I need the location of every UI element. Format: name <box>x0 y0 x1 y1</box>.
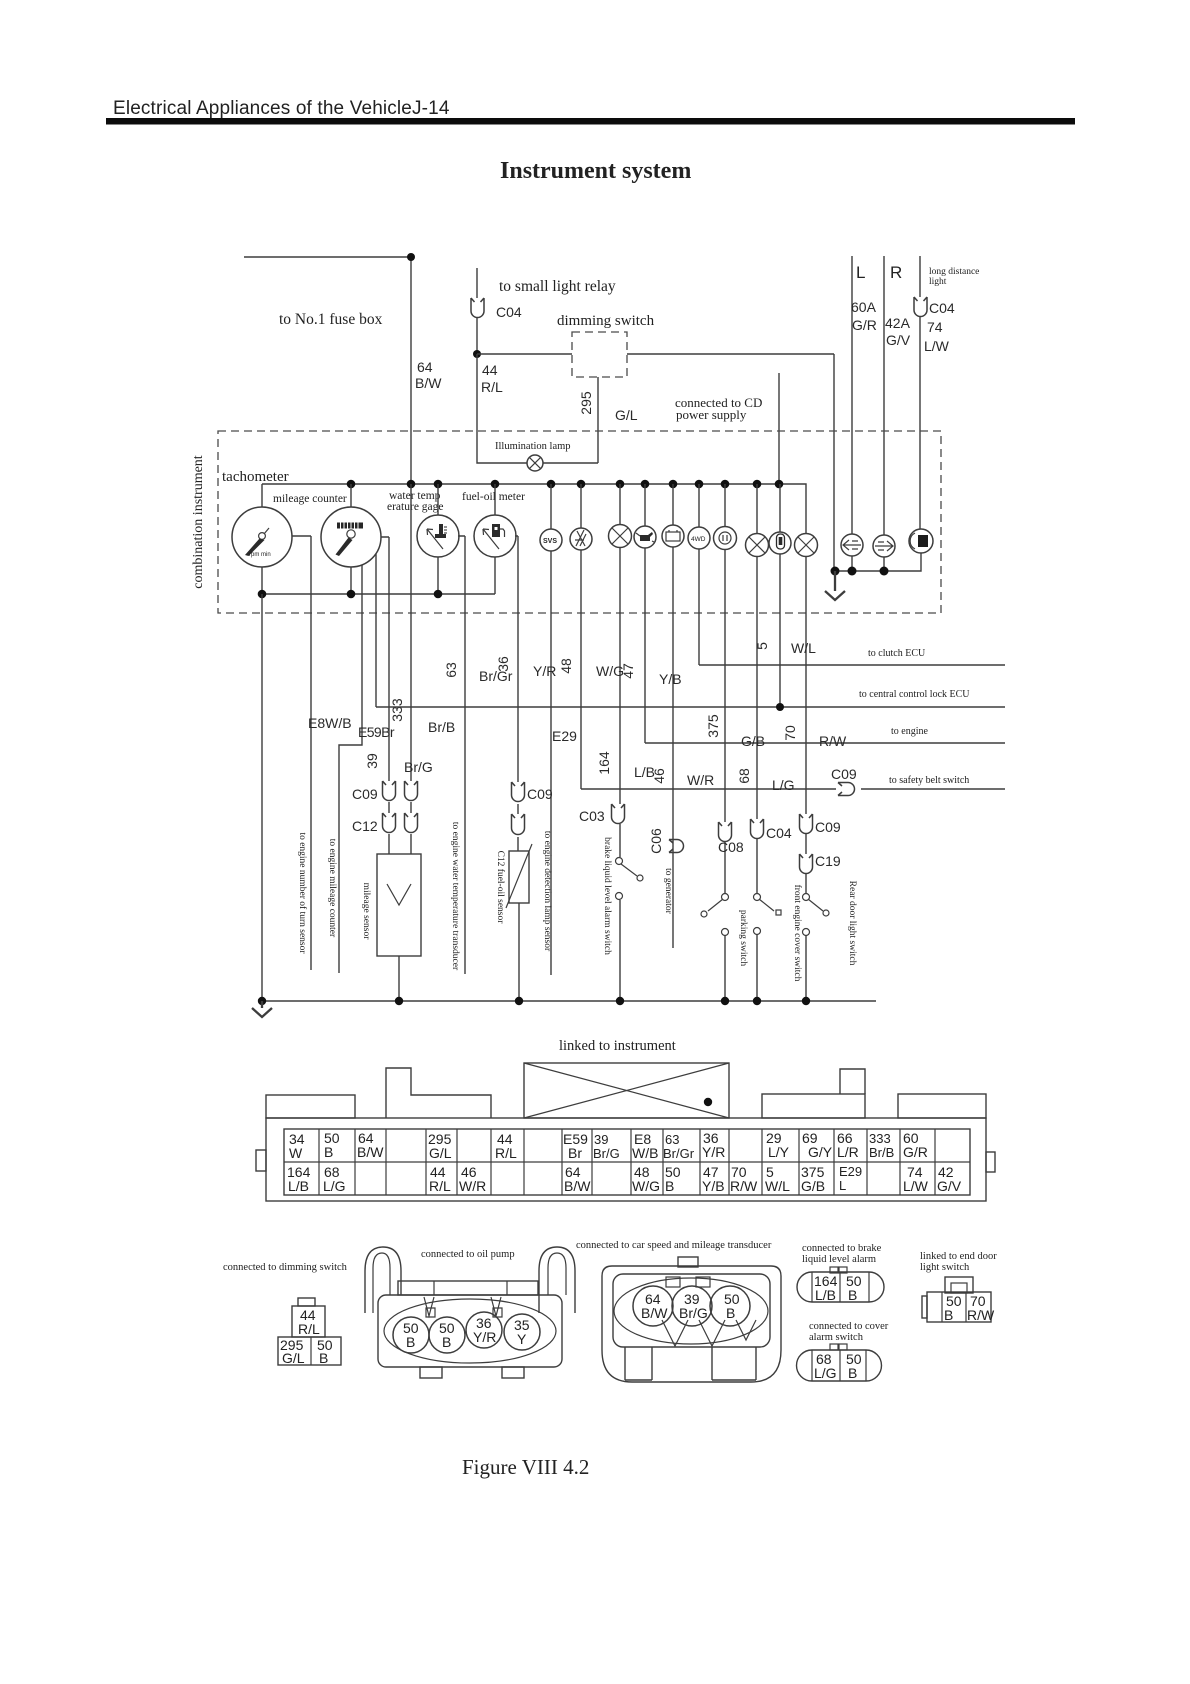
svg-text:C19: C19 <box>815 853 841 869</box>
svg-text:Br: Br <box>568 1145 582 1161</box>
svg-text:L: L <box>856 263 865 282</box>
svg-text:to clutch ECU: to clutch ECU <box>868 648 926 659</box>
connector C19 <box>800 854 813 874</box>
svg-text:brake liquid level alarm switc: brake liquid level alarm switch <box>602 837 612 955</box>
pin 34 W <box>289 1131 305 1161</box>
svg-text:42A: 42A <box>885 315 911 331</box>
svg-text:L/B: L/B <box>288 1178 309 1194</box>
wire E59 Br: to central control lock <box>375 554 377 707</box>
svg-text:B/W: B/W <box>641 1305 668 1321</box>
svg-text:mileage sensor: mileage sensor <box>361 883 371 941</box>
oil pump pin 36 Y/R <box>466 1312 502 1348</box>
svg-text:Illumination lamp: Illumination lamp <box>495 441 571 452</box>
svg-text:B: B <box>442 1334 451 1350</box>
svg-text:B: B <box>406 1334 415 1350</box>
connector C04 (front engine cover) <box>751 819 764 839</box>
svg-text:E8W/B: E8W/B <box>308 715 352 731</box>
svg-text:46: 46 <box>651 768 667 784</box>
svg-text:74: 74 <box>927 319 943 335</box>
connector C12 (mileage pin1) <box>383 813 396 833</box>
oil pump pin clips <box>424 1297 502 1317</box>
lamp ground link <box>831 567 889 576</box>
svg-text:L/W: L/W <box>903 1178 929 1194</box>
svg-text:L/G: L/G <box>814 1365 837 1381</box>
svg-text:mileage counter: mileage counter <box>273 493 347 505</box>
svg-text:G/B: G/B <box>801 1178 825 1194</box>
svg-text:C09: C09 <box>352 786 378 802</box>
C12 fuel-oil sensor (resistor) <box>506 844 532 908</box>
svg-text:C03: C03 <box>579 808 605 824</box>
svg-text:C09: C09 <box>527 786 553 802</box>
svg-text:long distance: long distance <box>929 267 979 277</box>
svg-text:G/V: G/V <box>937 1178 962 1194</box>
wire to No.1 fuse box (64 B/W feed) <box>244 253 415 484</box>
dimming switch (dashed box) <box>572 332 627 377</box>
wire L (60A G/R) <box>851 256 853 534</box>
tachometer gauge <box>232 484 292 594</box>
pin 63 Br/Gr <box>663 1132 695 1161</box>
wire 333 Br/B: mileage sensor pin 2 <box>410 484 412 854</box>
wire long distance light 74 L/W <box>919 256 921 529</box>
connector C08 (parking) <box>719 822 732 842</box>
svg-text:C04: C04 <box>496 304 522 320</box>
svg-text:Figure VIII 4.2: Figure VIII 4.2 <box>462 1455 589 1479</box>
pin E8 W/B <box>632 1131 658 1161</box>
svg-text:to engine detection lamp senso: to engine detection lamp sensor <box>542 831 552 952</box>
svg-text:G/B: G/B <box>741 733 765 749</box>
mileage sensor box <box>377 854 421 956</box>
connector keyway box with X <box>524 1063 729 1118</box>
svg-text:333: 333 <box>869 1131 891 1146</box>
svg-text:44: 44 <box>482 362 498 378</box>
svg-text:Y/B: Y/B <box>702 1178 725 1194</box>
svg-text:C12 fuel-oil sensor: C12 fuel-oil sensor <box>495 851 506 925</box>
pin 64 B/W (2) <box>564 1164 591 1194</box>
pin 50 B (dimming) <box>317 1337 333 1366</box>
transducer pin chevrons <box>662 1320 756 1346</box>
pin 70 R/W <box>730 1164 758 1194</box>
pin 375 G/B <box>801 1164 825 1194</box>
svg-text:70: 70 <box>782 725 798 741</box>
svg-text:G/Y: G/Y <box>808 1144 833 1160</box>
svg-text:Y/R: Y/R <box>533 663 556 679</box>
pin 295 G/L <box>428 1131 452 1161</box>
svg-text:164: 164 <box>596 751 612 775</box>
header rule <box>106 118 1075 125</box>
oil pump connector shell <box>365 1247 575 1378</box>
svg-text:R/W: R/W <box>967 1307 995 1323</box>
connector C09 (safety belt line) <box>838 783 855 796</box>
rear door light switch <box>803 894 830 1002</box>
svg-text:63: 63 <box>443 662 459 678</box>
svg-text:B: B <box>944 1307 953 1323</box>
svg-text:4WD: 4WD <box>691 536 706 543</box>
indicator lamp (X) right <box>795 534 818 895</box>
svg-text:power supply: power supply <box>676 407 747 422</box>
wire: gauge ground to chassis <box>261 594 263 1001</box>
indicator lamp oil pressure <box>634 484 656 743</box>
wire to clutch ECU <box>699 664 1005 666</box>
svg-text:light switch: light switch <box>920 1262 970 1273</box>
svg-text:connected to cover: connected to cover <box>809 1321 889 1332</box>
svg-text:Electrical Appliances of the V: Electrical Appliances of the VehicleJ-14 <box>113 98 450 119</box>
svg-text:C12: C12 <box>352 818 378 834</box>
node: seat belt lamp joins lock line <box>776 703 784 711</box>
pin 47 Y/B <box>702 1164 725 1194</box>
transducer pin 39 Br/G <box>672 1286 712 1326</box>
indicator lamp charge <box>570 484 592 789</box>
connector C09 (mileage pin2) <box>405 781 418 801</box>
svg-text:36: 36 <box>495 656 511 672</box>
svg-text:B: B <box>319 1350 328 1366</box>
connector C04 (long distance light) <box>914 297 927 317</box>
wire 39 Br/G: mileage sensor pin 1 <box>381 537 389 854</box>
svg-text:Instrument system: Instrument system <box>500 158 691 184</box>
pin 74 L/W <box>903 1164 929 1194</box>
transducer connector shell <box>602 1257 781 1382</box>
svg-text:Rear door light switch: Rear door light switch <box>847 881 857 966</box>
svg-text:39: 39 <box>594 1132 608 1147</box>
svg-text:G/L: G/L <box>615 407 638 423</box>
pin 295 G/L (dimming) <box>280 1337 305 1366</box>
svg-text:375: 375 <box>705 714 721 738</box>
svg-text:R: R <box>890 263 902 282</box>
svg-text:to No.1 fuse box: to No.1 fuse box <box>279 311 383 328</box>
pin 60 G/R <box>903 1130 928 1160</box>
svg-text:alarm switch: alarm switch <box>809 1332 864 1343</box>
pin 5 W/L <box>765 1164 790 1194</box>
svg-text:connected to oil pump: connected to oil pump <box>421 1249 515 1260</box>
oil pump pin 50 B <box>393 1317 429 1353</box>
combination instrument (dashed enclosure) <box>218 431 941 613</box>
ground arrow (instrument) <box>825 571 845 600</box>
svg-text:erature gage: erature gage <box>387 501 444 513</box>
svg-text:39: 39 <box>364 753 380 769</box>
svg-text:295: 295 <box>578 391 594 415</box>
pin 42 G/V <box>937 1164 962 1194</box>
svg-text:B: B <box>665 1178 674 1194</box>
svg-text:B/W: B/W <box>357 1144 384 1160</box>
transducer pin 50 B <box>710 1286 750 1326</box>
svg-text:L: L <box>839 1178 846 1193</box>
svg-text:B: B <box>848 1365 857 1381</box>
svg-text:linked to instrument: linked to instrument <box>559 1038 676 1054</box>
parking switch <box>701 894 729 1002</box>
pin 36 Y/R <box>702 1130 725 1160</box>
svg-text:R/L: R/L <box>298 1321 320 1337</box>
svg-text:W/L: W/L <box>765 1178 790 1194</box>
wire 44 R/L to dimming switch <box>477 353 572 355</box>
svg-text:dimming switch: dimming switch <box>557 313 655 329</box>
svg-text:L/R: L/R <box>837 1144 859 1160</box>
pin 50 B (2) <box>665 1164 681 1194</box>
pin 68 L/G <box>323 1164 346 1194</box>
svg-text:Y/R: Y/R <box>702 1144 725 1160</box>
oil pump pin 50 B (2) <box>429 1317 465 1353</box>
svg-text:R/L: R/L <box>429 1178 451 1194</box>
svg-text:fuel-oil meter: fuel-oil meter <box>462 491 525 503</box>
svg-text:B: B <box>848 1287 857 1303</box>
pin 46 W/R <box>459 1164 486 1194</box>
turn indicator L <box>841 534 863 571</box>
svg-text:R/L: R/L <box>481 379 503 395</box>
svg-text:333: 333 <box>389 698 405 722</box>
indicator lamp battery <box>662 484 684 948</box>
svg-text:C06: C06 <box>648 828 664 854</box>
high beam indicator <box>884 529 933 571</box>
pin 50 B (end door) <box>944 1293 962 1323</box>
indicator lamp (X) left <box>609 484 632 804</box>
svg-text:Y/R: Y/R <box>473 1329 496 1345</box>
svg-text:Br/G: Br/G <box>593 1146 620 1161</box>
svg-text:tachometer: tachometer <box>222 469 289 485</box>
wire: fuel sensor to ground <box>518 903 520 1001</box>
connector C06 (generator, rotated) <box>669 840 684 853</box>
svg-text:E29: E29 <box>839 1164 862 1179</box>
svg-text:parking switch: parking switch <box>738 910 748 966</box>
wire R (42A G/V) <box>883 256 885 535</box>
wire to safety belt switch <box>581 788 1005 790</box>
svg-text:C04: C04 <box>766 825 792 841</box>
connector C09 (rear door) <box>800 814 813 834</box>
pin 44 R/L (2) <box>429 1164 451 1194</box>
svg-text:E29: E29 <box>552 728 577 744</box>
svg-text:front engine cover switch: front engine cover switch <box>792 885 803 982</box>
pin 44 R/L (dimming) <box>298 1307 320 1337</box>
wire: to engine number of turn sensor <box>292 536 311 970</box>
svg-text:R/W: R/W <box>730 1178 758 1194</box>
mileage counter gauge <box>321 484 381 594</box>
svg-text:L/G: L/G <box>772 777 795 793</box>
pin 66 L/R <box>837 1130 859 1160</box>
svg-text:W/L: W/L <box>791 640 816 656</box>
svg-text:68: 68 <box>736 768 752 784</box>
svg-text:B/W: B/W <box>415 375 442 391</box>
wire 36 Y/R: fuel sensor <box>515 536 518 851</box>
brake liquid level alarm switch <box>616 824 644 1001</box>
svg-text:rpm min: rpm min <box>249 552 271 558</box>
svg-text:C09: C09 <box>815 819 841 835</box>
svg-text:Br/B: Br/B <box>428 719 455 735</box>
illumination lamp <box>527 455 543 471</box>
instrument connector housing <box>256 1068 995 1201</box>
connector C09 (mileage pin1) <box>383 781 396 801</box>
svg-text:64: 64 <box>417 359 433 375</box>
end door light switch connector <box>922 1277 991 1322</box>
svg-text:B: B <box>726 1305 735 1321</box>
pin 29 L/Y <box>766 1130 790 1160</box>
svg-text:W/R: W/R <box>687 772 714 788</box>
water temperature gauge <box>417 484 459 593</box>
chassis ground bus <box>258 997 876 1005</box>
oil pump pin 35 Y <box>504 1314 540 1350</box>
node: junction 44 R/L <box>473 350 481 358</box>
svg-text:liquid level alarm: liquid level alarm <box>802 1254 876 1265</box>
svg-text:R/L: R/L <box>495 1145 517 1161</box>
wire: mileage sensor to ground <box>398 956 400 1001</box>
svg-text:Br/G: Br/G <box>404 759 433 775</box>
pin grid <box>284 1129 970 1195</box>
wire to engine <box>645 742 1005 744</box>
pin E59 Br <box>563 1131 588 1161</box>
svg-text:to generator: to generator <box>663 868 673 914</box>
svg-text:L/Y: L/Y <box>768 1144 790 1160</box>
svg-text:connected to car speed and mil: connected to car speed and mileage trans… <box>576 1240 772 1251</box>
svg-text:63: 63 <box>665 1132 679 1147</box>
pin 50 B <box>324 1130 340 1160</box>
svg-text:Br/Gr: Br/Gr <box>663 1146 695 1161</box>
pin 64 B/W <box>357 1130 384 1160</box>
svg-text:C09: C09 <box>831 766 857 782</box>
brake alarm connector <box>797 1267 884 1302</box>
connector (fuel lower) <box>512 814 525 835</box>
front engine cover switch <box>754 894 782 1002</box>
svg-text:Br/G: Br/G <box>679 1305 708 1321</box>
svg-text:L/G: L/G <box>323 1178 346 1194</box>
svg-text:B: B <box>324 1144 333 1160</box>
gauge ground bus <box>258 590 495 599</box>
svg-text:to engine mileage counter: to engine mileage counter <box>327 839 337 938</box>
pin 333 Br/B <box>869 1131 894 1160</box>
svg-text:B/W: B/W <box>564 1178 591 1194</box>
turn indicator R <box>873 535 895 571</box>
indicator lamp seat belt <box>769 484 791 707</box>
svg-text:W/R: W/R <box>459 1178 486 1194</box>
svg-text:linked to end door: linked to end door <box>920 1251 997 1262</box>
pin 164 L/B (brake alarm) <box>814 1273 838 1303</box>
svg-text:W: W <box>289 1145 303 1161</box>
svg-text:Y/B: Y/B <box>659 671 682 687</box>
connector C12 (mileage pin2) <box>405 813 418 833</box>
dimming switch connector <box>278 1298 341 1365</box>
pin E29 L <box>839 1164 862 1193</box>
indicator lamp (X) mid <box>746 484 769 894</box>
svg-text:C08: C08 <box>718 839 744 855</box>
pin 70 R/W (end door) <box>967 1293 995 1323</box>
wire to central control lock ECU <box>376 706 1005 708</box>
main supply bus <box>262 484 806 534</box>
pin 164 L/B <box>287 1164 311 1194</box>
svg-text:combination instrument: combination instrument <box>191 455 206 588</box>
wire from dimming switch to lamp ground branch <box>627 354 834 571</box>
pin 50 B (cover alarm) <box>846 1351 862 1381</box>
pin 68 L/G (cover alarm) <box>814 1351 837 1381</box>
svg-text:light: light <box>929 277 947 287</box>
pin 39 Br/G <box>593 1132 620 1161</box>
svg-text:47: 47 <box>620 663 636 679</box>
svg-text:W/B: W/B <box>632 1145 658 1161</box>
svg-text:L/W: L/W <box>924 338 950 354</box>
svg-text:to small light relay: to small light relay <box>499 278 616 295</box>
connector C03 (brake liquid level) <box>612 804 625 824</box>
svg-text:60A: 60A <box>851 299 877 315</box>
svg-text:to safety belt switch: to safety belt switch <box>889 775 969 786</box>
pin 48 W/G <box>632 1164 660 1194</box>
wire 63 Br/Gr: to engine water temperature transducer <box>458 536 465 974</box>
svg-text:connected to brake: connected to brake <box>802 1243 882 1254</box>
svg-text:to engine number of turn senso: to engine number of turn sensor <box>297 832 308 954</box>
ground arrow (chassis) <box>252 1001 272 1017</box>
cover alarm connector <box>797 1344 882 1381</box>
svg-text:L/B: L/B <box>815 1287 836 1303</box>
wire E8 W/B: to engine mileage counter <box>339 565 362 973</box>
svg-text:connected to dimming switch: connected to dimming switch <box>223 1262 348 1273</box>
svg-text:G/R: G/R <box>852 317 877 333</box>
wire connected to CD power supply <box>778 373 780 484</box>
indicator lamp brake <box>714 484 737 893</box>
pin 50 B (brake alarm) <box>846 1273 862 1303</box>
svg-text:C04: C04 <box>929 300 955 316</box>
svg-text:G/R: G/R <box>903 1144 928 1160</box>
svg-text:G/L: G/L <box>282 1350 305 1366</box>
svg-text:Br/B: Br/B <box>869 1145 894 1160</box>
svg-text:5: 5 <box>754 642 770 650</box>
svg-text:W/G: W/G <box>632 1178 660 1194</box>
wire: illumination lamp feed <box>477 354 598 463</box>
pin 44 R/L <box>495 1131 517 1161</box>
svg-text:SVS: SVS <box>543 538 557 545</box>
bus junction dots <box>347 480 784 489</box>
svg-text:to central control lock ECU: to central control lock ECU <box>859 689 970 700</box>
svg-text:to engine water temperature tr: to engine water temperature transducer <box>450 822 460 971</box>
fuel-oil meter gauge <box>474 484 516 594</box>
connector C09 (fuel upper) <box>512 782 525 802</box>
indicator lamp SVS <box>540 484 562 975</box>
svg-text:Y: Y <box>517 1331 527 1347</box>
wire to small light relay <box>476 268 478 354</box>
transducer pin 64 B/W <box>633 1286 673 1326</box>
svg-text:R/W: R/W <box>819 733 847 749</box>
svg-text:G/V: G/V <box>886 332 911 348</box>
pin 69 G/Y <box>802 1130 833 1160</box>
svg-text:G/L: G/L <box>429 1145 452 1161</box>
indicator lamp 4WD <box>688 484 710 665</box>
connector C04 (top) <box>471 298 484 318</box>
svg-text:48: 48 <box>558 658 574 674</box>
svg-text:to engine: to engine <box>891 726 928 737</box>
